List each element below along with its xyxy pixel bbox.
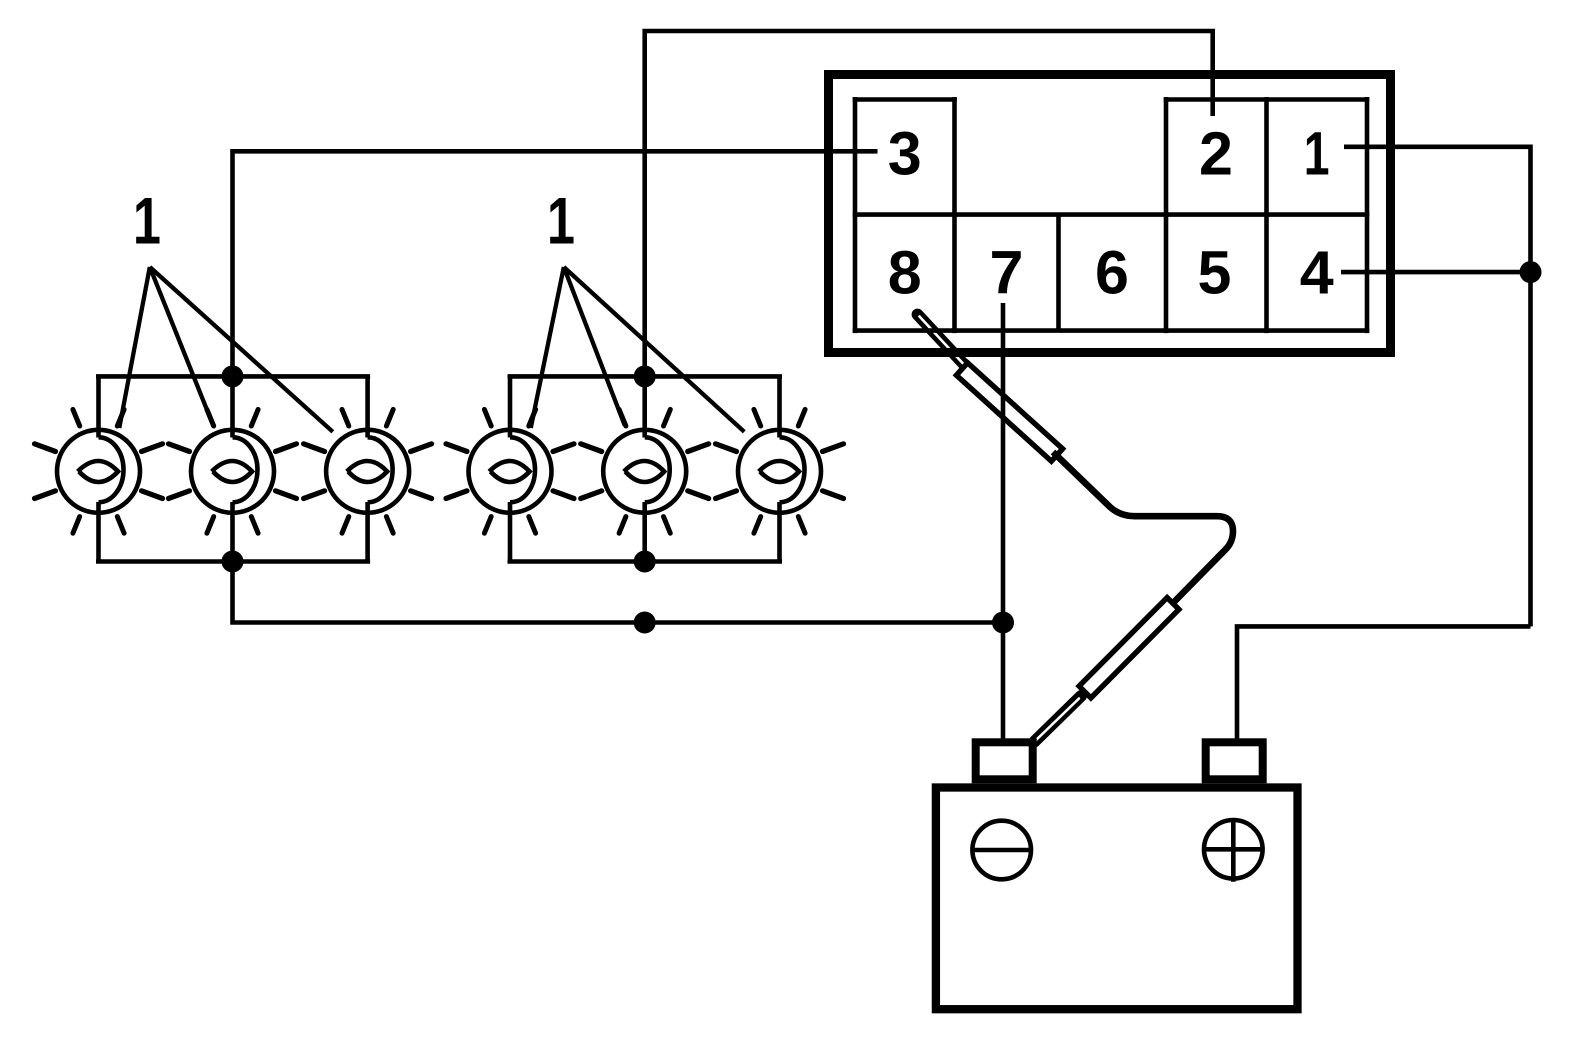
svg-text:1: 1 (547, 185, 575, 258)
svg-text:8: 8 (888, 238, 922, 306)
pointer lines left label (119, 267, 332, 432)
lamp bulb B2 (169, 409, 297, 533)
lamp group box G2 (508, 376, 783, 561)
wire top rail from lamp group 2 to pin 2 (645, 31, 1213, 377)
pin 5 label (1198, 238, 1232, 306)
svg-text:2: 2 (1199, 119, 1233, 187)
wire from pin 3 to lamp group 1 (233, 151, 878, 377)
fusible link F1 body (956, 363, 1062, 461)
battery terminal post (right) (1206, 742, 1263, 779)
junction dot G1 top (222, 365, 244, 387)
junction dot bottom rail (634, 612, 656, 634)
wire from pin 4 to node at right (1341, 270, 1531, 275)
lamp bulb B1 (35, 409, 163, 533)
lamp bulb B3 (304, 409, 432, 533)
battery body (936, 788, 1298, 1010)
svg-text:7: 7 (990, 238, 1024, 306)
pin 7 label (990, 238, 1024, 306)
lamp bulb B5 (581, 409, 709, 533)
lamp bulb B6 (716, 409, 844, 533)
fusible link F2 body (1079, 598, 1179, 698)
svg-text:1: 1 (1304, 120, 1330, 188)
wire through middle bulb of group G1 (230, 376, 235, 561)
svg-text:3: 3 (888, 119, 922, 187)
pointer lines right label (531, 267, 745, 432)
pin 3 label (888, 119, 922, 187)
junction dot G2 top (634, 365, 656, 387)
pin 1 label (1304, 120, 1330, 188)
lamp callout label 1 (right) (547, 185, 575, 258)
junction dot G2 bottom (634, 551, 656, 573)
svg-text:6: 6 (1095, 238, 1129, 306)
lamp bulb B4 (446, 409, 574, 533)
connector cell grid (853, 97, 1370, 333)
pin 6 label (1095, 238, 1129, 306)
battery negative symbol (971, 821, 1032, 880)
wire through middle bulb of group G2 (642, 376, 647, 561)
svg-text:4: 4 (1300, 238, 1334, 306)
svg-text:1: 1 (133, 185, 161, 258)
svg-text:5: 5 (1198, 238, 1232, 306)
wire from pin 1 down right side (1344, 147, 1531, 627)
junction dot pin7 rail (992, 612, 1014, 634)
wire from pin 7 down to battery negative terminal (1001, 303, 1006, 740)
wire bottom rail from lamp group 1 to pin 7 wire (233, 562, 1004, 623)
pin 4 label (1300, 238, 1334, 306)
fusible link F1 tube from pin 8 (918, 315, 967, 367)
pin 8 label (888, 238, 922, 306)
lamp group box G1 (96, 376, 370, 561)
junction dot G1 bottom (222, 551, 244, 573)
wire from F1 through elbow to F2 (1053, 452, 1233, 602)
wire from right side down to battery positive terminal (1237, 626, 1531, 740)
junction dot pins 1-4 right (1520, 261, 1542, 283)
fusible link F2 tube to battery positive terminal (1033, 696, 1081, 743)
battery terminal post (left) (976, 742, 1033, 779)
battery positive symbol (1203, 818, 1264, 881)
lamp callout label 1 (left) (133, 185, 161, 258)
pin 2 label (1199, 119, 1233, 187)
connector C1 outline (829, 75, 1391, 353)
